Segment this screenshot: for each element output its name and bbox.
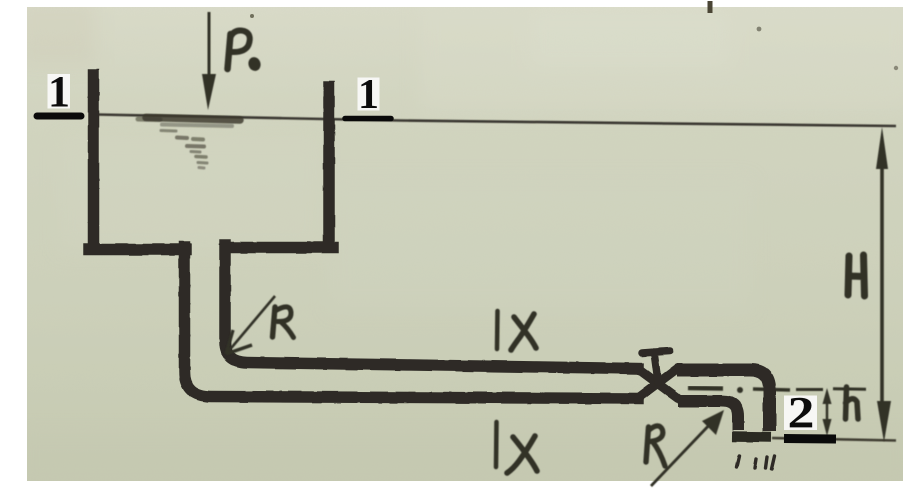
section label 1 (right): white box, digit, underline <box>358 78 380 111</box>
valve T handle <box>642 351 670 382</box>
dash-dot centerline <box>688 387 866 393</box>
label R (upper) <box>273 307 276 337</box>
svg-text:2: 2 <box>788 388 815 437</box>
outlet pipe upper/outer wall after valve <box>677 370 770 431</box>
label H <box>848 255 865 296</box>
radius arrow R (upper bend) <box>227 296 275 353</box>
section marker x-x upper: bar <box>495 311 500 349</box>
tank right wall + bottom right + downpipe inner wall + upper pipe wall <box>225 87 638 369</box>
outlet hatch marks <box>737 456 775 469</box>
liquid surface line 1-1 <box>97 115 896 127</box>
section label 1 (left): white box, digit, underline <box>48 74 71 109</box>
pressure arrow Pa head <box>202 74 216 110</box>
svg-text:1: 1 <box>48 67 70 116</box>
radius arrow R (lower bend) <box>651 420 714 486</box>
section marker x-x lower: letter x <box>507 436 537 473</box>
label h <box>846 387 859 419</box>
label R (lower) <box>646 427 649 462</box>
section marker x-x upper: letter x <box>511 314 536 350</box>
stray scan marks <box>708 1 713 13</box>
H dimension line <box>880 160 884 410</box>
h dimension double arrow <box>826 395 829 430</box>
liquid hatching under surface <box>138 118 240 169</box>
tank outer wall + downpipe outer wall + lower pipe wall <box>89 75 638 399</box>
section label 2: white box, digit, underline <box>784 396 817 431</box>
valve body (bowtie X) <box>638 368 678 399</box>
pressure arrow Pa shaft <box>208 12 211 76</box>
bottom reference line 2-2 <box>772 438 896 441</box>
label Pa (handwritten P with subscript a) <box>228 34 231 69</box>
section marker x-x lower: bar <box>494 422 499 467</box>
svg-text:1: 1 <box>358 72 379 118</box>
outlet pipe lower/inner wall after valve <box>678 401 738 430</box>
outlet exit plane bar <box>732 431 771 442</box>
